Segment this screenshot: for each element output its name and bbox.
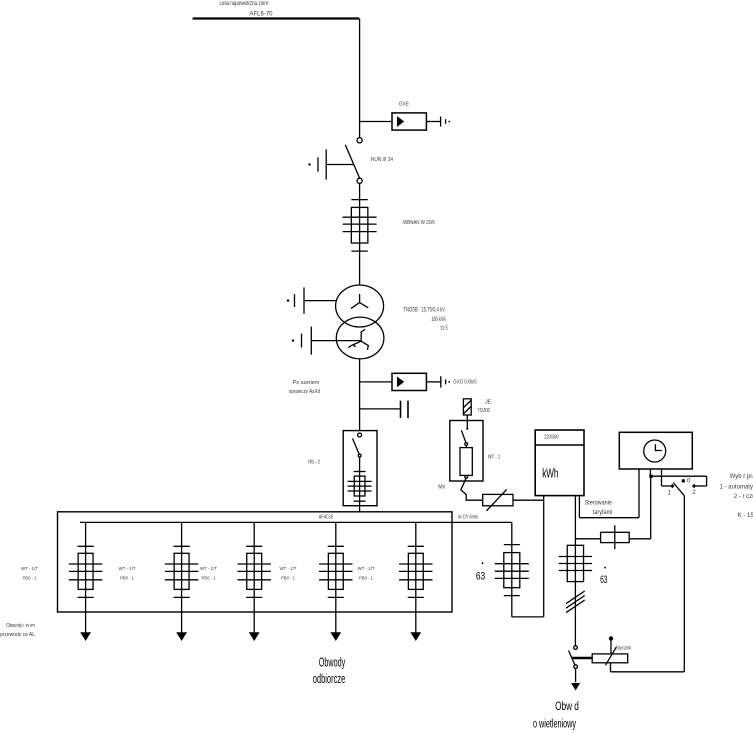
svg-text:WT - 1/T: WT - 1/T (21, 566, 38, 572)
svg-text:2: 2 (692, 489, 696, 496)
svg-text:Stycznik: Stycznik (616, 646, 632, 652)
svg-text:AFL6-70: AFL6-70 (250, 11, 274, 17)
svg-text:Sterowanie: Sterowanie (585, 500, 613, 506)
svg-text:220/380: 220/380 (544, 434, 559, 440)
svg-text:63: 63 (600, 574, 607, 586)
svg-text:PB0 - 1: PB0 - 1 (23, 575, 37, 581)
svg-text:Yz 5: Yz 5 (440, 326, 448, 332)
svg-text:WT - 1/T: WT - 1/T (200, 566, 217, 572)
svg-text:WT - 1: WT - 1 (488, 454, 501, 460)
svg-text:WT - 1/T: WT - 1/T (280, 566, 297, 572)
svg-text:sprawczy AsXd: sprawczy AsXd (289, 389, 320, 395)
svg-text:o wietleniowy: o wietleniowy (533, 716, 577, 730)
svg-text:Po szeriem: Po szeriem (293, 380, 320, 386)
svg-text:TNOSB 15,75/0,4 kV: TNOSB 15,75/0,4 kV (403, 308, 445, 314)
svg-text:1: 1 (668, 489, 672, 496)
svg-text:RUN III 24: RUN III 24 (371, 157, 393, 163)
svg-text:GXE: GXE (399, 102, 409, 108)
svg-text:63: 63 (476, 571, 485, 583)
svg-text:75/300: 75/300 (477, 408, 490, 414)
svg-text:PB0 - 1: PB0 - 1 (359, 575, 373, 581)
svg-text:Obwody: Obwody (319, 656, 346, 670)
svg-text:WT - 1/T: WT - 1/T (119, 566, 136, 572)
svg-text:Obw d: Obw d (555, 699, 579, 713)
svg-text:RB - 2: RB - 2 (308, 460, 320, 466)
svg-text:0: 0 (687, 477, 691, 484)
svg-text:Linia napowietrzna 15kV: Linia napowietrzna 15kV (220, 1, 269, 7)
svg-text:kWh: kWh (542, 466, 558, 480)
svg-text:przewodz ce AL: przewodz ce AL (0, 632, 35, 638)
svg-text:PB0 - 1: PB0 - 1 (281, 575, 295, 581)
svg-text:taryfami: taryfami (593, 510, 613, 516)
svg-text:WT - 1/T: WT - 1/T (358, 566, 375, 572)
svg-text:GXO 0,66/5: GXO 0,66/5 (453, 380, 476, 386)
svg-text:1 - automatyczne: 1 - automatyczne (720, 485, 753, 491)
svg-text:Wyb r pracy:: Wyb r pracy: (730, 474, 753, 480)
svg-text:PB0 - 1: PB0 - 1 (202, 575, 216, 581)
svg-text:2 - r czne: 2 - r czne (734, 494, 753, 500)
svg-text:Obwody i in im: Obwody i in im (6, 623, 35, 629)
svg-text:odbiorcze: odbiorcze (313, 672, 346, 686)
svg-text:AF4Cs5: AF4Cs5 (319, 514, 334, 520)
svg-text:K - 15: K - 15 (738, 513, 753, 519)
svg-text:PB0 - 1: PB0 - 1 (120, 575, 134, 581)
svg-text:WNt: WNt (438, 485, 445, 491)
svg-text:160 kVA: 160 kVA (431, 317, 445, 323)
svg-text:JE: JE (485, 399, 492, 405)
svg-text:4x DY 6mm: 4x DY 6mm (458, 515, 478, 521)
svg-text:WBNAN W 20/6: WBNAN W 20/6 (403, 220, 435, 226)
